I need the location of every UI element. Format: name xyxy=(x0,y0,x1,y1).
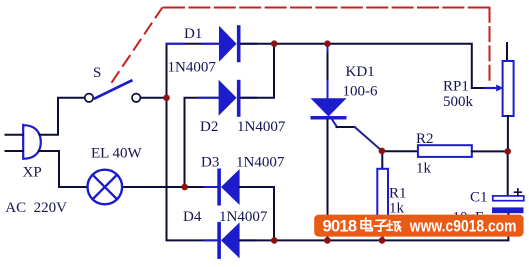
diode lead blue segments xyxy=(167,44,257,241)
wire lamp to D3 xyxy=(122,186,217,188)
svg-text:1N4007: 1N4007 xyxy=(219,209,268,225)
switch S terminal left xyxy=(85,94,93,102)
svg-text:1N4007: 1N4007 xyxy=(168,60,217,76)
svg-text:1k: 1k xyxy=(416,161,432,177)
svg-text:9018: 9018 xyxy=(323,218,358,236)
potentiometer RP1 wiper arrow xyxy=(485,87,497,89)
svg-text:R2: R2 xyxy=(416,131,434,147)
svg-text:R1: R1 xyxy=(389,186,407,202)
bridge left rail node A xyxy=(167,44,220,241)
resistor R1 leads xyxy=(381,151,383,241)
wire D3 anode down to bottom rail xyxy=(240,187,274,240)
svg-text:KD1: KD1 xyxy=(346,64,375,80)
wire R2 to right rail xyxy=(472,150,508,152)
svg-text:RP1: RP1 xyxy=(443,79,469,95)
wire right rail down to C1 xyxy=(507,151,509,195)
svg-text:D2: D2 xyxy=(200,119,218,135)
mechanical link dashed line S to RP1 xyxy=(112,8,490,83)
diode D3 xyxy=(217,169,239,206)
wire gate node to R2 xyxy=(382,150,418,152)
SCR KD1 xyxy=(311,98,347,119)
wire D2 branch node B xyxy=(185,98,219,187)
capacitor C1 positive plate xyxy=(493,196,524,201)
wire D1 cathode to top rail corner xyxy=(241,44,487,88)
top rail junction dot SCR anode xyxy=(324,40,331,47)
potentiometer RP1 bottom stub xyxy=(507,116,509,151)
diode D2 xyxy=(219,80,241,117)
watermark glyph zi xyxy=(374,220,387,231)
svg-text:S: S xyxy=(93,65,101,81)
potentiometer RP1 top stub xyxy=(506,43,508,62)
svg-text:XP: XP xyxy=(23,165,42,181)
svg-text:1N4007: 1N4007 xyxy=(236,155,285,171)
wire switch to node A xyxy=(141,97,167,99)
watermark glyph cheng xyxy=(387,221,401,231)
switch S lever xyxy=(95,81,131,99)
capacitor C1 plus sign xyxy=(515,189,522,195)
svg-text:500k: 500k xyxy=(443,94,474,110)
svg-text:AC 220V: AC 220V xyxy=(5,200,67,216)
svg-text:100-6: 100-6 xyxy=(343,84,378,100)
top rail junction dot D2 xyxy=(271,40,278,47)
svg-text:1k: 1k xyxy=(389,201,405,217)
resistor R2 xyxy=(418,145,472,157)
potentiometer RP1 body xyxy=(503,61,514,116)
wire bottom rail to C1 xyxy=(240,213,509,240)
svg-text:1N4007: 1N4007 xyxy=(237,119,286,135)
bottom rail junction dot D3 xyxy=(271,237,278,244)
svg-text:www.c9018.com: www.c9018.com xyxy=(409,218,517,236)
wire plug bottom lead to lamp xyxy=(39,151,88,187)
gate node junction dot xyxy=(379,148,386,155)
bottom rail junction dot R1 xyxy=(379,237,386,244)
svg-text:EL 40W: EL 40W xyxy=(91,146,143,162)
node A junction dot xyxy=(163,95,170,102)
lamp EL xyxy=(88,170,123,205)
diode D1 xyxy=(219,25,241,62)
diode D4 xyxy=(217,222,239,259)
SCR KD1 gate lead xyxy=(331,117,338,127)
bottom rail junction dot SCR cathode xyxy=(324,237,331,244)
switch S terminal right xyxy=(132,94,140,102)
SCR KD1 anode lead xyxy=(327,44,329,99)
plug XP body xyxy=(23,125,41,159)
svg-text:C1: C1 xyxy=(470,190,488,206)
svg-text:D4: D4 xyxy=(183,209,202,225)
svg-text:D1: D1 xyxy=(184,26,202,42)
plug prongs xyxy=(6,135,24,151)
watermark glyph dian xyxy=(361,218,372,231)
wire plug top lead to switch xyxy=(40,98,85,135)
svg-text:D3: D3 xyxy=(201,155,219,171)
wire D2 cathode up to top rail xyxy=(241,44,274,98)
watermark banner xyxy=(314,215,523,237)
SCR KD1 cathode lead xyxy=(327,120,329,241)
node B junction dot xyxy=(181,184,188,191)
resistor R1 xyxy=(377,169,388,216)
right rail junction dot R2 xyxy=(504,148,511,155)
capacitor C1 negative plate xyxy=(492,207,524,213)
